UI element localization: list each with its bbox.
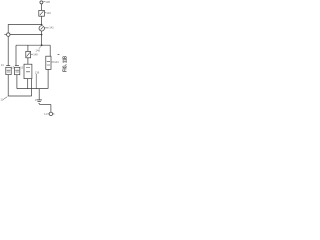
wire branch x28 down — [27, 45, 29, 51]
capacitor box C1 — [6, 67, 11, 74]
wire box to top rail — [41, 16, 43, 24]
wire branch x16 down — [15, 45, 17, 65]
wire left edge mid — [7, 36, 9, 65]
capacitor box C2 — [15, 67, 20, 74]
svg-text:138: 138 — [45, 0, 50, 4]
junction dot top rail — [41, 24, 43, 26]
wire right corner down — [49, 45, 51, 56]
label 112 leader — [3, 97, 7, 100]
label 140 leader — [45, 12, 46, 14]
label 142 leader — [44, 27, 48, 29]
junction dot y34.5 — [41, 34, 43, 36]
wire bottom output — [39, 104, 51, 106]
capacitor tick C1 — [6, 65, 10, 67]
wire left edge lower — [7, 75, 9, 96]
input node circle — [7, 33, 10, 36]
wire left edge upper — [7, 24, 9, 33]
svg-text:FIG. 11B: FIG. 11B — [62, 55, 68, 72]
wire top rail — [8, 23, 41, 25]
C1 plates — [7, 70, 11, 72]
stub x36 — [35, 74, 37, 89]
label 144 leader — [51, 61, 54, 63]
circle component 142 — [39, 26, 44, 31]
capacitor tick C2 — [15, 65, 19, 67]
134 plates — [26, 68, 30, 72]
144 plates — [47, 62, 50, 65]
wire spine circle to y45 — [41, 31, 43, 45]
box 148 diagonal — [27, 53, 30, 57]
svg-text:142: 142 — [49, 25, 54, 29]
wire rail connector — [31, 89, 33, 96]
wire output corner down — [50, 105, 52, 113]
wire big box to inner rail — [27, 79, 29, 89]
svg-text:148: 148 — [33, 53, 38, 57]
component box 144 — [46, 56, 51, 69]
supply terminal — [40, 1, 43, 4]
ground stub — [38, 89, 40, 100]
input stub — [4, 34, 6, 36]
label 146 leader — [39, 46, 41, 48]
small dash 146 — [58, 54, 60, 55]
wire supply to box — [41, 4, 43, 10]
component box 148 — [26, 51, 31, 57]
label 148 leader — [31, 53, 33, 55]
wire box right edge down — [31, 79, 33, 89]
C2 plates — [15, 70, 19, 72]
svg-text:140: 140 — [46, 11, 51, 15]
circle 142 inner mark — [41, 27, 43, 29]
varactor box 134 — [24, 64, 32, 78]
output terminal — [49, 112, 52, 115]
wire bottom outer rail — [8, 95, 31, 97]
svg-text:13: 13 — [20, 66, 23, 70]
wire x16 box to inner rail — [16, 75, 18, 89]
wire inner rail — [17, 88, 48, 90]
svg-text:13: 13 — [11, 65, 14, 69]
ground — [36, 100, 42, 103]
wire box144 to inner rail — [47, 69, 49, 88]
box 140 diagonal — [40, 11, 44, 15]
svg-text:146: 146 — [36, 48, 41, 52]
label 138 leader — [43, 0, 45, 3]
svg-text:136: 136 — [35, 70, 40, 74]
component box 140 — [39, 10, 45, 16]
wire y45 rail — [16, 44, 50, 46]
junction dot y45 — [41, 44, 43, 46]
svg-text:11: 11 — [0, 97, 3, 101]
output terminal ticks — [47, 113, 54, 115]
wire node line y34.5 — [10, 34, 42, 36]
svg-text:13: 13 — [1, 63, 4, 67]
svg-text:144: 144 — [54, 60, 59, 64]
wire box148 to big box — [27, 58, 29, 64]
